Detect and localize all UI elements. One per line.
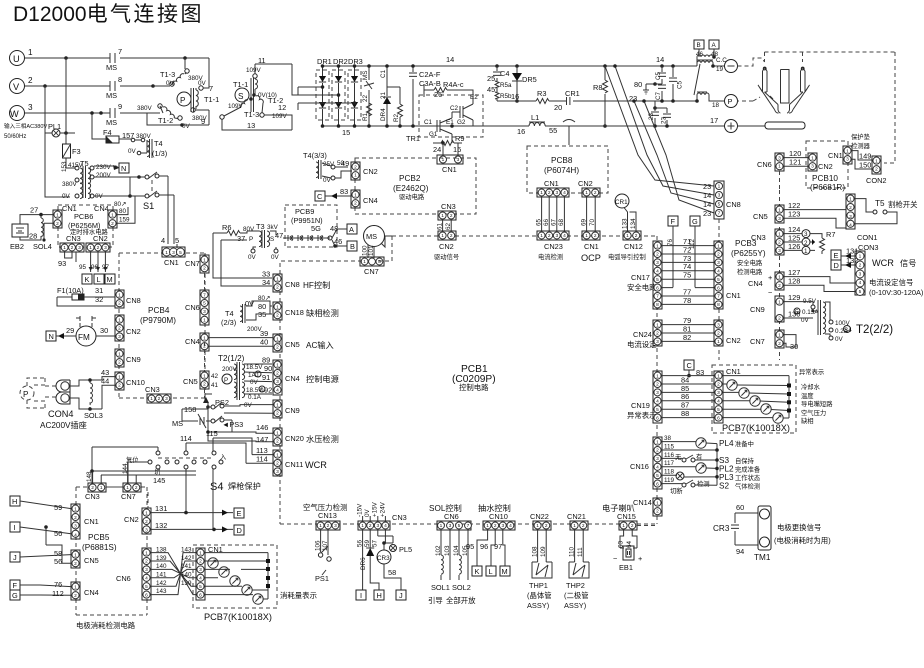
svg-text:1: 1 [111,212,114,218]
svg-text:EB2: EB2 [10,242,24,251]
svg-text:T4(3/3): T4(3/3) [303,151,327,160]
svg-text:3kV: 3kV [267,224,279,231]
svg-text:2: 2 [656,252,659,258]
svg-text:OCP: OCP [581,253,601,263]
svg-text:C1: C1 [424,119,433,126]
svg-text:气体检测: 气体检测 [735,482,760,491]
svg-text:2: 2 [450,233,453,239]
svg-text:146: 146 [256,423,268,432]
svg-text:(二极管: (二极管 [564,591,589,600]
svg-text:0V: 0V [198,80,207,87]
svg-text:无: 无 [675,453,682,461]
svg-text:(0-10V:30-120A): (0-10V:30-120A) [869,288,923,297]
svg-text:1: 1 [540,190,543,196]
svg-text:CN13: CN13 [318,511,337,520]
svg-text:CN6: CN6 [116,574,131,583]
svg-text:23: 23 [661,116,668,124]
socket P CON4 [20,386,34,400]
svg-text:PS1: PS1 [315,574,329,583]
PCB2 dashed box [355,158,476,214]
svg-text:D: D [834,261,839,270]
svg-text:60: 60 [736,503,744,512]
svg-text:4: 4 [74,532,77,538]
connector CN2 PCB2 [351,162,360,180]
svg-text:驱动电路: 驱动电路 [399,192,425,201]
svg-text:T2(1/2): T2(1/2) [218,354,245,363]
svg-text:割枪开关: 割枪开关 [888,200,918,209]
svg-text:4: 4 [859,280,862,286]
svg-text:1: 1 [540,233,543,239]
svg-text:J: J [13,553,17,562]
diagonal wires to CN8 [605,66,714,186]
svg-text:1: 1 [276,362,279,368]
switch PS1 [318,553,322,557]
lamp PL5 [390,545,397,552]
svg-text:2: 2 [276,439,279,445]
svg-text:E: E [237,509,242,518]
svg-text:CN2: CN2 [124,515,139,524]
svg-text:2: 2 [656,382,659,388]
svg-text:50/60Hz: 50/60Hz [4,134,26,140]
N box [119,163,129,173]
svg-text:5: 5 [717,277,720,283]
svg-text:131: 131 [155,504,167,513]
svg-text:1: 1 [118,351,121,357]
svg-text:1: 1 [656,373,659,379]
svg-text:115: 115 [206,429,218,438]
relay CR3 small [377,550,391,564]
svg-text:CN5: CN5 [753,212,768,221]
svg-text:C4: C4 [500,69,509,78]
svg-text:CN22: CN22 [530,512,549,521]
svg-text:3: 3 [656,456,659,462]
IGBT G2 [452,99,473,126]
svg-text:17: 17 [710,116,718,125]
svg-text:7: 7 [203,292,206,298]
svg-text:CN11: CN11 [285,460,303,469]
svg-text:R5a: R5a [500,82,512,89]
svg-text:4: 4 [656,465,659,471]
svg-text:M: M [502,567,508,576]
svg-text:96: 96 [480,542,488,551]
svg-text:CON2: CON2 [866,176,887,185]
svg-text:2: 2 [199,559,202,565]
svg-text:18.5V: 18.5V [246,364,263,371]
svg-text:EB1: EB1 [619,563,633,572]
svg-text:34: 34 [262,278,270,287]
svg-text:3: 3 [145,528,148,534]
svg-text:AC输入: AC输入 [306,340,334,350]
svg-text:2: 2 [327,523,330,529]
svg-text:3: 3 [859,271,862,277]
connector CN2 PCB3 [714,320,723,346]
svg-text:CN8: CN8 [285,280,300,289]
svg-text:65: 65 [536,218,543,226]
svg-text:4: 4 [717,269,720,275]
svg-text:5: 5 [458,523,461,529]
svg-text:S1: S1 [143,201,154,211]
lamp PL2 [696,463,706,473]
svg-text:2: 2 [369,523,372,529]
svg-text:2: 2 [635,233,638,239]
svg-text:45: 45 [487,85,495,94]
svg-text:C: C [687,361,693,370]
PCB5 dashed box [76,487,147,615]
svg-text:115: 115 [664,443,675,450]
svg-text:L1: L1 [531,113,539,122]
svg-text:3: 3 [811,164,814,170]
svg-text:异常表示: 异常表示 [799,367,824,376]
svg-text:1: 1 [74,552,77,558]
svg-text:(P6255Y): (P6255Y) [731,249,766,258]
contactor MS phase1 [110,53,115,63]
svg-text:1: 1 [717,373,720,379]
connector CN10 PCB4 left [115,372,124,390]
svg-text:3: 3 [276,379,279,385]
line16 [497,100,697,102]
svg-text:CN7: CN7 [121,492,136,501]
connector CON2 [852,151,872,169]
svg-text:异常表示: 异常表示 [627,411,657,420]
svg-text:149: 149 [859,152,871,161]
svg-text:电极消耗检测电路: 电极消耗检测电路 [76,621,136,630]
svg-text:23: 23 [703,182,711,191]
svg-text:CN2: CN2 [818,162,833,171]
svg-text:6: 6 [717,415,720,421]
IGBT G1 [428,112,452,143]
svg-text:21: 21 [380,91,387,99]
svg-text:CN10: CN10 [126,378,145,387]
svg-text:5: 5 [656,407,659,413]
svg-text:3: 3 [804,231,808,238]
svg-text:22: 22 [362,94,369,102]
svg-text:全部开放: 全部开放 [446,596,476,605]
svg-text:驱动信号: 驱动信号 [434,252,459,261]
svg-text:3: 3 [846,157,849,163]
connector CN12 [623,231,641,240]
svg-text:(晶体管: (晶体管 [527,591,552,600]
svg-text:148: 148 [86,471,93,482]
svg-text:C2: C2 [450,105,459,112]
svg-text:CN6: CN6 [444,512,459,521]
svg-text:58: 58 [388,568,396,577]
svg-text:109V: 109V [228,103,244,110]
DR5 [515,64,519,68]
svg-text:4: 4 [509,523,512,529]
svg-text:E2: E2 [470,94,478,101]
svg-text:57: 57 [372,539,379,547]
caps lower pair [653,106,657,110]
svg-text:R1: R1 [362,112,369,121]
svg-text:1: 1 [656,500,659,506]
varistor MS [364,66,374,126]
svg-text:入: 入 [220,454,227,461]
svg-text:冷却水: 冷却水 [801,382,821,391]
svg-text:2: 2 [656,448,659,454]
svg-text:CN9: CN9 [750,305,765,314]
svg-text:1: 1 [199,550,202,556]
svg-text:5: 5 [145,584,148,590]
connector CN1 PCB7 [714,371,723,423]
dashed bottom corner to CN14 [637,525,657,527]
svg-text:68: 68 [558,218,565,226]
svg-text:82: 82 [683,333,691,342]
svg-text:T4: T4 [154,139,163,148]
svg-text:7: 7 [118,47,122,56]
svg-text:CN9: CN9 [285,406,300,415]
svg-text:+: + [768,273,772,282]
svg-text:2: 2 [111,221,114,227]
lamps PCB7b [208,558,218,568]
T1 winding terminals [170,82,174,86]
terminal W [10,106,25,121]
svg-text:49: 49 [341,159,349,168]
svg-text:1: 1 [126,485,129,491]
switch PS2 [205,394,212,401]
svg-text:电极更换信号: 电极更换信号 [777,523,821,532]
svg-text:CR1: CR1 [615,199,628,206]
svg-text:2: 2 [276,371,279,377]
svg-text:CN4: CN4 [185,337,200,346]
svg-text:AC200V插座: AC200V插座 [40,420,87,430]
terminal V [10,79,25,94]
svg-text:CN1: CN1 [584,242,599,251]
svg-text:控制电源: 控制电源 [306,374,339,384]
svg-text:1: 1 [804,248,808,255]
svg-text:CN3: CN3 [392,513,407,522]
connector CN4 ctrl [273,360,282,395]
svg-text:6: 6 [717,285,720,291]
svg-text:WCR: WCR [872,258,894,268]
fuse F3 [63,144,71,158]
S4 contact group [158,457,214,459]
svg-text:H: H [377,591,382,600]
svg-text:工作状态: 工作状态 [735,473,761,482]
wire phase3 [25,112,160,114]
svg-text:CN2: CN2 [726,336,741,345]
svg-text:0V: 0V [364,508,371,517]
switch S1 [145,175,149,179]
svg-text:0V: 0V [62,193,71,200]
svg-text:CN2: CN2 [126,327,141,336]
svg-text:9: 9 [118,102,122,111]
svg-text:T2(2/2): T2(2/2) [856,324,893,336]
transformer T1 secondary S [235,88,249,102]
svg-text:2: 2 [778,240,781,246]
svg-text:PL4: PL4 [719,439,734,448]
TR1 dashed box [419,95,483,137]
svg-text:C5: C5 [655,71,662,80]
svg-text:THP2: THP2 [566,581,585,590]
svg-text:MS: MS [106,63,117,72]
connector CN2 PCB10 [808,153,817,171]
svg-text:4: 4 [276,388,279,394]
svg-text:76: 76 [54,580,62,589]
svg-text:1: 1 [203,318,206,324]
svg-text:2: 2 [450,213,453,219]
svg-text:3: 3 [778,248,781,254]
wire phase1 [25,57,209,59]
PCB7 dashed box right [712,365,796,433]
svg-text:32: 32 [95,295,103,304]
svg-text:完成准备: 完成准备 [735,465,761,474]
svg-text:2: 2 [849,205,852,211]
svg-text:1: 1 [118,317,121,323]
svg-text:−: − [768,288,772,297]
svg-text:0.15A: 0.15A [802,309,819,316]
svg-text:焊枪保护: 焊枪保护 [228,481,261,491]
svg-text:3: 3 [449,523,452,529]
svg-text:T1-3: T1-3 [244,110,259,119]
CN16 wires [662,442,717,486]
svg-text:16: 16 [511,92,519,101]
svg-text:1: 1 [536,523,539,529]
svg-text:消耗量表示: 消耗量表示 [280,591,317,600]
svg-text:20: 20 [554,103,562,112]
svg-text:1: 1 [778,274,781,280]
fan FM [76,326,96,346]
CON4 connector [56,380,70,404]
svg-text:(1/3): (1/3) [152,149,167,158]
dashed CN8 to PCB3 [718,219,720,245]
svg-text:126: 126 [788,242,800,251]
svg-text:5: 5 [718,202,721,208]
svg-text:N: N [121,164,126,173]
transformer T1 primary P [177,92,191,106]
svg-text:4: 4 [717,399,720,405]
lamp PL3 small [676,472,684,480]
svg-text:3: 3 [104,245,107,251]
svg-text:56: 56 [54,557,62,566]
lamp PL4 [696,438,706,448]
svg-text:0V: 0V [245,299,254,308]
svg-text:SOL1: SOL1 [431,583,450,592]
svg-text:12: 12 [278,103,286,112]
svg-text:0.1A: 0.1A [248,394,262,401]
svg-text:CN1: CN1 [726,291,741,300]
thermal protector on PCB8 [563,120,575,127]
svg-text:T3: T3 [256,222,265,231]
svg-text:4: 4 [656,399,659,405]
svg-text:S: S [238,92,244,101]
svg-text:CN1: CN1 [828,151,843,160]
svg-text:L: L [489,567,493,576]
svg-text:1: 1 [846,148,849,154]
svg-text:116: 116 [664,452,675,459]
bridge diodes bottom [319,102,326,108]
svg-text:13: 13 [247,121,255,130]
svg-text:C1: C1 [380,69,387,78]
T1S wires [222,64,298,130]
svg-text:1: 1 [778,207,781,213]
svg-text:2: 2 [276,313,279,319]
svg-text:MS: MS [172,419,183,428]
svg-text:1: 1 [441,233,444,239]
connector CN1 PCB4 [162,247,185,257]
bridge input wires [292,87,355,110]
svg-text:1: 1 [74,584,77,590]
svg-text:CN16: CN16 [630,462,649,471]
svg-text:缺相: 缺相 [801,416,814,425]
junction dots on phases [64,56,68,60]
svg-text:28: 28 [29,232,37,241]
svg-text:CN7: CN7 [185,259,200,268]
svg-text:2: 2 [545,523,548,529]
svg-text:112: 112 [52,589,64,598]
svg-text:3: 3 [457,157,460,163]
connector CN9 PCB4 left [115,349,124,367]
svg-text:HF控制: HF控制 [303,280,330,290]
bridge vertical wires [323,66,355,126]
svg-text:2: 2 [158,396,161,402]
svg-text:15: 15 [342,128,350,137]
svg-text:CN3: CN3 [145,385,160,394]
svg-text:DR4: DR4 [380,108,387,121]
svg-text:131: 131 [846,247,858,256]
PCB10 dashed box [806,141,848,188]
svg-text:230V: 230V [96,164,112,171]
svg-text:2: 2 [203,382,206,388]
svg-text:93: 93 [58,259,66,268]
svg-text:电弧导引控制: 电弧导引控制 [608,252,646,261]
torch dashed connections [738,58,765,101]
HF transformer top [694,40,704,49]
svg-text:3: 3 [849,214,852,220]
svg-text:3: 3 [717,322,720,328]
svg-text:1: 1 [256,372,260,379]
svg-text:0V: 0V [248,254,257,261]
svg-text:1: 1 [118,292,121,298]
svg-text:CN2: CN2 [578,179,593,188]
svg-text:92: 92 [264,385,272,394]
svg-text:2: 2 [276,411,279,417]
timer TM1 [758,506,771,550]
svg-text:PCB5: PCB5 [88,533,110,542]
L1 [521,125,697,127]
svg-text:CN9: CN9 [126,355,141,364]
svg-text:1: 1 [63,245,66,251]
svg-text:380V: 380V [137,105,153,112]
svg-text:117: 117 [664,460,675,467]
svg-text:5: 5 [795,309,799,316]
svg-text:6: 6 [656,481,659,487]
S4 wires [128,438,213,529]
boxed D node [234,525,244,535]
svg-text:D12000电气连接图: D12000电气连接图 [13,3,204,26]
svg-text:T4: T4 [225,309,234,318]
bottom boxed letters I H J [356,590,366,600]
svg-text:1: 1 [573,523,576,529]
svg-text:7: 7 [718,211,721,217]
svg-text:保护垫: 保护垫 [851,132,871,141]
T5 wires [94,177,139,196]
svg-text:1: 1 [717,339,720,345]
svg-text:T1-3: T1-3 [160,70,175,79]
svg-text:2: 2 [276,345,279,351]
svg-text:F3: F3 [72,147,81,156]
svg-text:TR1: TR1 [406,134,420,143]
svg-text:G: G [692,217,698,226]
svg-text:1: 1 [778,332,781,338]
svg-text:0V: 0V [128,148,137,155]
svg-text:2: 2 [656,509,659,515]
svg-text:6: 6 [656,415,659,421]
svg-text:4: 4 [656,269,659,275]
svg-text:1: 1 [363,259,366,265]
svg-text:2: 2 [118,383,121,389]
connector CN1 PCB5 [71,504,80,539]
svg-text:3: 3 [717,260,720,266]
